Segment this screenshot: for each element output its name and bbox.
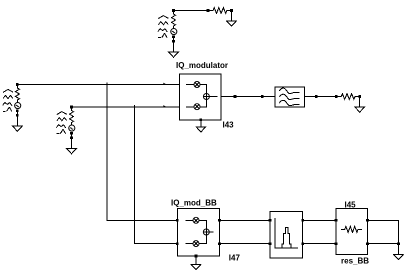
svg-text:I47: I47 (229, 253, 241, 262)
svg-text:IQ_modulator: IQ_modulator (176, 61, 228, 70)
svg-text:res_BB: res_BB (341, 256, 369, 265)
svg-text:IQ_mod_BB: IQ_mod_BB (171, 199, 217, 208)
svg-text:I43: I43 (223, 120, 235, 129)
